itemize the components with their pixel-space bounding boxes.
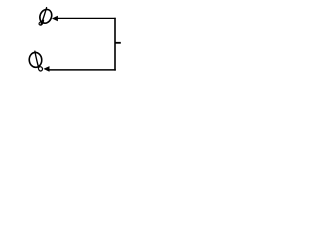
wire top horizontal run (57, 17, 115, 19)
balloon B1 (top symbol: slashed ellipse with knot) (38, 7, 54, 25)
wire bottom horizontal run (50, 69, 116, 71)
input stub (tee tap on right wire) (115, 42, 121, 44)
balloon B2 (bottom symbol: slashed circle with knot) (29, 51, 43, 71)
arrowhead into B1 (52, 16, 58, 21)
arrowhead into B2 (43, 66, 49, 72)
wire right vertical run (114, 18, 116, 71)
